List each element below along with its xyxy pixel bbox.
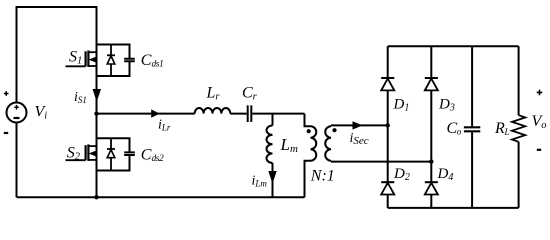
current iLr arrow	[151, 109, 159, 117]
label - (Vo)	[537, 149, 541, 151]
wire left rail lower	[16, 123, 18, 198]
svg-text:Cr: Cr	[242, 85, 258, 103]
svg-text:iLm: iLm	[252, 173, 268, 188]
resistor RL	[512, 46, 525, 208]
capacitor Cds2	[124, 152, 135, 155]
svg-text:iSec: iSec	[350, 131, 369, 147]
inductor Lr	[195, 108, 231, 114]
body diode S2	[107, 138, 115, 170]
current iLm arrow	[268, 171, 276, 184]
node secondary top to D1/D2 leg	[386, 123, 390, 127]
MOSFET S2	[66, 144, 97, 161]
capacitor Cr	[248, 105, 252, 122]
svg-text:D1: D1	[393, 97, 410, 114]
wire top rail	[17, 7, 97, 103]
svg-text:D2: D2	[393, 166, 410, 183]
wire Lr to Cr	[230, 113, 246, 115]
svg-text:Lr: Lr	[206, 85, 221, 103]
current iSec arrow	[353, 121, 363, 129]
diode D3	[425, 46, 438, 182]
svg-text:S1: S1	[69, 49, 82, 67]
svg-text:Co: Co	[447, 120, 462, 137]
capacitor Cds1	[124, 59, 135, 62]
wire bridge top rail	[388, 45, 519, 47]
wire S2 box	[97, 138, 130, 170]
MOSFET S1	[66, 51, 97, 68]
node mid junction	[94, 111, 98, 115]
wire Cr to primary	[252, 113, 304, 115]
svg-text:Lm: Lm	[280, 135, 298, 155]
node S2 source junction	[94, 195, 98, 199]
wire bridge bottom rail	[388, 207, 519, 209]
voltage source Vi	[7, 103, 27, 123]
wire S1 channel line	[96, 45, 98, 139]
wire bottom rail	[17, 196, 305, 198]
svg-text:Vi: Vi	[35, 104, 48, 122]
svg-text:iLr: iLr	[158, 117, 171, 132]
svg-text:Cds2: Cds2	[141, 146, 164, 164]
transformer secondary winding	[325, 125, 331, 161]
wire S1 box	[97, 45, 130, 77]
label + (Vi top)	[4, 91, 9, 96]
node secondary bottom to D3/D4 leg	[429, 159, 433, 163]
svg-text:S2: S2	[67, 144, 81, 162]
svg-text:iS1: iS1	[74, 90, 87, 105]
svg-text:Cds1: Cds1	[141, 52, 164, 70]
secondary polarity dot	[332, 128, 336, 132]
wire S2 source line	[96, 138, 98, 197]
wire secondary top	[331, 124, 388, 126]
current iS1 arrow	[93, 89, 102, 102]
body diode S1	[107, 45, 115, 77]
diode D2	[381, 182, 394, 208]
inductor Lm	[267, 114, 273, 198]
label - (Vi bottom)	[4, 132, 8, 134]
primary polarity dot	[307, 129, 311, 133]
svg-text:N:1: N:1	[310, 168, 335, 185]
svg-text:D4: D4	[437, 166, 454, 183]
svg-text:RL: RL	[494, 120, 509, 137]
label + (Vo)	[537, 90, 543, 96]
svg-text:D3: D3	[438, 97, 455, 114]
wire mid rail	[97, 113, 195, 115]
svg-text:Vo: Vo	[532, 113, 547, 131]
transformer primary winding	[305, 114, 317, 198]
wire secondary bottom	[331, 161, 431, 163]
diode D4	[425, 182, 438, 208]
diode D1	[381, 46, 394, 182]
capacitor Co	[464, 46, 480, 208]
